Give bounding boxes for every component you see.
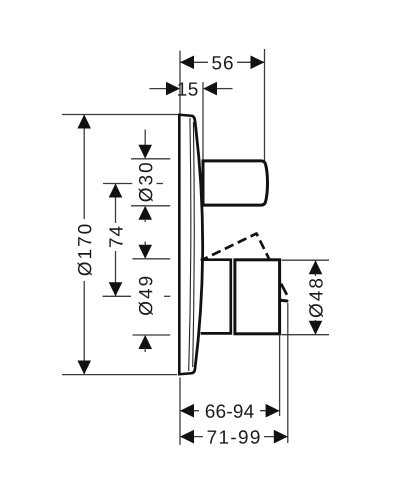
dimension Ø48 label <box>306 276 326 320</box>
dimension Ø170 line <box>83 115 85 375</box>
dimension 66-94 label <box>199 401 260 420</box>
dimension 56 right arrow <box>251 56 265 70</box>
dimension Ø49 label <box>139 277 153 315</box>
lever front extension line (bottom) <box>279 335 281 417</box>
dimension 74 line <box>115 184 117 297</box>
dashed rotated lever outline <box>204 234 270 260</box>
dimension Ø49 top arrow+stem <box>144 242 146 247</box>
dimension 56 left arrow <box>180 56 194 70</box>
dimension 56 label <box>208 53 237 72</box>
dimension 71-99 right arrow <box>274 430 288 444</box>
escutcheon plate bottom edge <box>178 373 193 374</box>
dimension Ø170 bottom extension line <box>62 374 177 376</box>
notch tip extension line (bottom) <box>287 303 289 443</box>
dimension Ø30 label <box>139 163 153 202</box>
dimension 74 top arrow <box>109 184 123 198</box>
knob axis line <box>103 183 132 185</box>
dimension 56 line <box>180 61 265 63</box>
dimension Ø49 bottom arrow+stem <box>138 335 152 349</box>
dimension Ø170 top arrow <box>77 115 91 129</box>
dimension Ø170 top extension line <box>62 114 178 116</box>
dimension Ø49 bottom extension line <box>133 334 171 336</box>
dimension Ø48 top arrow <box>309 260 323 274</box>
dimension Ø48 top extension line <box>282 259 330 261</box>
dimension 71-99 line <box>180 436 288 438</box>
plate inner contour line 1 <box>189 118 191 371</box>
dimension 66-94 line <box>180 410 280 412</box>
dimension Ø30 top arrow+stem <box>144 130 146 147</box>
dimension 74 label <box>106 223 126 251</box>
dimension Ø49 top extension line <box>133 258 171 260</box>
dimension 66-94 left arrow <box>180 404 194 418</box>
wall plane extension line (bottom) <box>179 378 181 446</box>
dimension Ø48 bottom arrow <box>309 321 323 335</box>
dimension 66-94 right arrow <box>266 404 280 418</box>
lever axis line <box>103 295 132 297</box>
dimension 71-99 label <box>203 427 264 446</box>
knob front extension line <box>264 49 266 161</box>
dimension 15 right arrow+tail <box>203 82 217 96</box>
dimension 15 label <box>178 83 197 96</box>
escutcheon plate back edge <box>178 114 181 375</box>
dimension 71-99 left arrow <box>180 430 194 444</box>
dimension Ø170 bottom arrow <box>77 361 91 375</box>
plate front extension line <box>202 82 204 160</box>
dimension Ø30 bottom arrow+stem <box>138 206 152 220</box>
dimension 15 left tail+arrow <box>150 88 167 90</box>
dimension Ø30 bottom extension line <box>131 205 170 207</box>
dimension Ø30 top extension line <box>131 158 170 160</box>
escutcheon plate top edge <box>178 115 193 116</box>
dimension Ø48 line <box>315 260 317 335</box>
escutcheon plate front silhouette curve <box>192 116 203 373</box>
dashed rotated lever outline (below lever edge) <box>281 284 287 295</box>
lever handle (Ø48) rectangle <box>235 260 280 334</box>
dimension 74 bottom arrow <box>109 282 123 296</box>
dimension Ø48 bottom extension line <box>282 334 330 336</box>
knob (diverter, Ø30) body <box>203 161 268 205</box>
handle sleeve (Ø49) rectangle <box>201 260 231 334</box>
lever notch tab <box>280 299 287 303</box>
plate inner contour line 2 <box>193 122 195 367</box>
wall plane extension line (top) <box>179 51 181 114</box>
dimension Ø170 label <box>74 219 94 281</box>
